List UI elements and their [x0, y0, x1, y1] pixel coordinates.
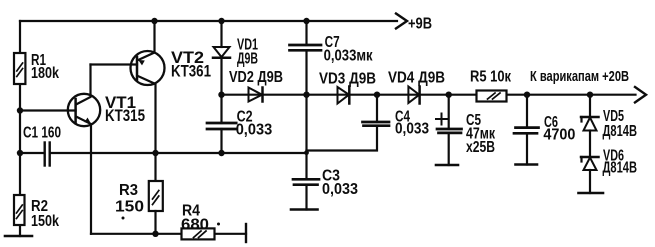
zener VD5: [587, 92, 593, 98]
svg-text:0,033: 0,033: [236, 122, 273, 139]
node junction left-bus: [17, 150, 23, 156]
ground bar C3: [291, 208, 318, 211]
svg-text:0,033: 0,033: [395, 121, 429, 138]
capacitor C4: [374, 92, 380, 98]
svg-text:0,033: 0,033: [322, 181, 358, 198]
svg-text:+9В: +9В: [408, 16, 432, 33]
resistor R3: [154, 153, 156, 181]
wire top +9V rail: [20, 20, 397, 22]
svg-text:R3: R3: [119, 182, 138, 199]
ground bar VD6: [579, 192, 604, 195]
node junction bottom R3: [152, 231, 158, 237]
resistor R2: [14, 195, 25, 225]
ground bar C6: [516, 163, 538, 166]
node junction R3 top: [152, 150, 158, 156]
svg-text:VD4 Д9В: VD4 Д9В: [388, 70, 445, 87]
svg-text:VD3 Д9В: VD3 Д9В: [319, 71, 376, 88]
svg-text:KT361: KT361: [171, 62, 211, 81]
zener VD6: [581, 156, 599, 159]
wire VT1 base: [20, 109, 76, 111]
wire VT1 collector to VT2 base: [91, 63, 138, 65]
node terminal bar right of R4: [245, 224, 247, 242]
wire bottom: [91, 233, 246, 235]
svg-text:Д814В: Д814В: [603, 160, 638, 177]
capacitor C3: [293, 178, 319, 181]
ground bar C5: [436, 164, 458, 167]
svg-text:680: 680: [181, 217, 209, 234]
transistor VT2: [131, 51, 165, 85]
wire C3 branch vertical: [305, 95, 307, 180]
node dot bus VD1: [218, 92, 224, 98]
svg-text:150k: 150k: [31, 213, 59, 230]
node +9V arrow: [396, 14, 407, 29]
capacitor C1: [44, 143, 46, 166]
svg-text:C1 160: C1 160: [23, 125, 61, 142]
capacitor C5: [446, 92, 452, 98]
resistor R1: [14, 53, 25, 84]
resistor R4: [182, 228, 215, 239]
node +20V arrow: [635, 87, 646, 102]
svg-text:KT315: KT315: [105, 106, 145, 125]
svg-text:Д814В: Д814В: [603, 123, 638, 140]
svg-text:VD2 Д9В: VD2 Д9В: [229, 69, 283, 86]
diode VD4: [408, 87, 419, 104]
node dot VT2 emitter rail: [151, 18, 157, 24]
capacitor C2: [220, 95, 222, 123]
transistor VT1: [68, 94, 100, 126]
svg-text:Д9В: Д9В: [237, 51, 258, 68]
diode VD3: [338, 87, 350, 104]
wire main diode bus: [222, 94, 636, 96]
wire lower bus: [20, 152, 44, 154]
diode VD2: [249, 88, 263, 102]
svg-text:R5 10к: R5 10к: [470, 69, 512, 86]
capacitor C7: [305, 21, 307, 45]
svg-text:150: 150: [115, 199, 144, 216]
ground bar R2: [5, 235, 32, 238]
svg-text:4700: 4700: [543, 127, 575, 144]
diode VD1: [220, 21, 222, 47]
node junction left-base: [17, 107, 23, 113]
svg-text:х25В: х25В: [466, 139, 495, 156]
capacitor C6: [524, 92, 530, 98]
svg-text:180k: 180k: [31, 65, 59, 82]
resistor R5: [477, 91, 507, 102]
wire left vertical rail: [19, 21, 21, 53]
node dot bus C7: [303, 92, 309, 98]
svg-text:0,033мк: 0,033мк: [324, 48, 374, 65]
svg-text:К варикапам +20В: К варикапам +20В: [530, 68, 629, 85]
